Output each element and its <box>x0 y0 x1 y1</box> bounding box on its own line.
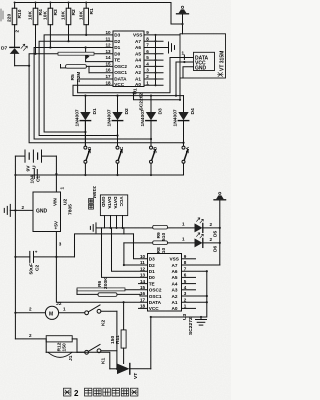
wire 7805 +5V pin3 <box>55 232 61 259</box>
wire +5V jog to module row <box>123 228 125 234</box>
TX module inner box DATA VCC GND <box>194 52 215 71</box>
wire DATA long vertical <box>56 257 147 302</box>
wire common rail <box>15 174 183 176</box>
diode D4 1N4007 <box>173 96 197 146</box>
wire U1 VCC to diode rail <box>73 85 184 95</box>
wire U3 A7 row to LED bus <box>182 264 220 266</box>
resistor R2 <box>61 2 78 43</box>
diode D2 1N4007 <box>107 95 131 146</box>
resistor R3 <box>43 2 60 49</box>
switch SB <box>150 121 159 175</box>
wire battery+ to 7805 <box>55 156 64 192</box>
relay contact K2 <box>85 305 117 326</box>
wire U3 pin14 stub <box>139 283 148 285</box>
resistor R1 <box>78 2 95 37</box>
caption text <box>64 388 71 396</box>
wire module row down to U3 pin13 <box>102 228 148 278</box>
wire U3 pin10 to +5V <box>134 234 148 259</box>
RX module 315M <box>89 186 128 229</box>
antenna RX <box>214 192 226 265</box>
wire module VCC feed <box>175 61 194 97</box>
relay contact K1 <box>85 345 117 365</box>
IC U3 SC2272 <box>140 254 194 336</box>
resistor R11 150 <box>110 302 126 363</box>
wire TE link <box>85 46 114 61</box>
battery U 9V <box>15 150 56 172</box>
wire U1 pin12 bus to SB <box>34 48 151 140</box>
resistor R6 200K <box>77 277 148 297</box>
wire (thick bar) <box>58 52 94 55</box>
wire relay common <box>116 311 118 369</box>
diode D1 1N4007 <box>74 95 98 146</box>
ground (U3) <box>196 316 207 325</box>
wire U3 VCC stub <box>139 307 148 309</box>
wire U1 pin10 bus to SD <box>44 35 113 132</box>
wire module row to R9 <box>105 227 153 229</box>
wire U1 address bus <box>144 34 163 86</box>
ground (7805) <box>4 204 10 216</box>
resistor R9 510 <box>153 221 195 241</box>
antenna TX <box>177 6 189 34</box>
wire U1 pin11 bus to SC <box>39 41 117 135</box>
diode D3 1N4007 <box>140 95 164 146</box>
LED D6 <box>195 233 221 252</box>
wire D7 to key bus <box>15 65 30 67</box>
edge smudge top-left <box>1 9 3 21</box>
LED D7 <box>1 44 27 65</box>
wire U3 pin11 to R8 <box>124 264 148 266</box>
wire U1 pin13 bus to SA <box>29 54 183 143</box>
wire top rail <box>15 3 183 25</box>
wire RX data down to U3 pin12 <box>112 228 148 271</box>
wire module GND <box>183 67 194 78</box>
resistor R10 <box>7 2 24 48</box>
wire +5V riser <box>75 234 134 257</box>
switch SA <box>182 121 191 175</box>
transistor VT <box>110 364 151 380</box>
wire U3 OSC2 bar <box>77 288 148 295</box>
motor J2 <box>15 301 84 319</box>
wire TX box bottom to data rail <box>134 78 181 100</box>
wire right bus down <box>151 271 207 317</box>
capacitor C1 104 <box>29 170 41 184</box>
ground (RX module) <box>90 223 104 233</box>
IC U2 7805 <box>33 192 74 232</box>
wire 7805 GND pin2 <box>10 209 33 211</box>
switch SD <box>84 121 93 175</box>
relay coil J1 <box>46 339 84 361</box>
IC U1 SC2262 <box>106 30 150 110</box>
wire U1 VSS to box <box>144 34 180 36</box>
wire U3 right stubs <box>182 259 208 309</box>
resistor R12 150 <box>15 333 77 351</box>
wire left rail <box>14 156 16 339</box>
resistor R5 <box>61 65 114 83</box>
capacitor C2 50uF <box>15 249 74 274</box>
LED D5 <box>195 218 221 237</box>
ground (U1 A6) <box>144 42 175 53</box>
resistor R4 <box>28 2 45 55</box>
TX module VT315M outer box <box>180 34 226 78</box>
wire U1 DATA to module <box>78 58 194 93</box>
wire VT collector to J1 <box>77 352 110 369</box>
wire U3 DATA junction <box>123 301 125 303</box>
switch SC <box>116 121 125 175</box>
wire VT emitter to ground <box>150 317 152 369</box>
resistor R8 510 <box>124 236 195 265</box>
